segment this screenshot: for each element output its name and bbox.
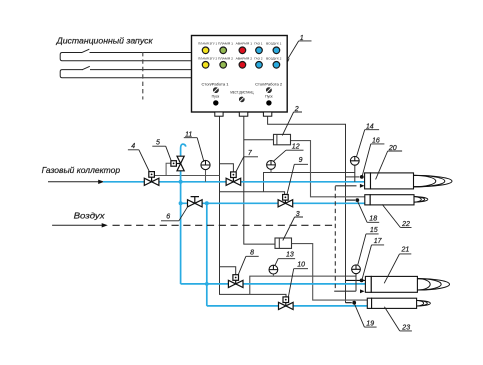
pipe junction dot A — [179, 180, 183, 184]
label 16 — [362, 138, 384, 176]
wire bus of upper valve group — [152, 175, 220, 177]
svg-text:ПЛАМЯ ЗГУ 1: ПЛАМЯ ЗГУ 1 — [198, 42, 217, 46]
label 9 — [287, 157, 308, 194]
label 5 — [152, 140, 171, 161]
air header dashed — [113, 224, 336, 226]
wire branch to valve 9 actuator — [220, 192, 285, 195]
svg-text:МЕСТ./ДИСТАНЦ.: МЕСТ./ДИСТАНЦ. — [230, 91, 254, 95]
panel terminal 3 — [263, 112, 271, 116]
label 23 — [384, 307, 412, 332]
wire from terminal 2 — [244, 116, 275, 244]
panel terminal 1 — [215, 112, 223, 116]
gas branch to pilot line — [181, 202, 365, 204]
svg-text:23: 23 — [401, 324, 410, 331]
label 20 — [376, 145, 403, 180]
wire branch to transformer 2 — [244, 139, 274, 141]
pipe from valve 9 to igniter of burner 20 — [264, 173, 355, 192]
svg-text:18: 18 — [369, 215, 377, 222]
svg-text:10: 10 — [297, 262, 305, 269]
flame rod wire of pilot 22 — [346, 199, 356, 201]
svg-text:Стоп/Работа 2: Стоп/Работа 2 — [255, 82, 282, 86]
svg-text:ГАЗ 2: ГАЗ 2 — [254, 56, 263, 60]
label 7 — [236, 150, 258, 172]
svg-text:22: 22 — [401, 221, 410, 228]
switch blade 2 — [82, 66, 90, 70]
selector switch local/remote — [239, 97, 244, 102]
selector switch 1 — [213, 88, 218, 93]
svg-text:8: 8 — [250, 249, 254, 256]
svg-text:19: 19 — [366, 320, 374, 327]
wire branch to valve 8 actuator — [220, 267, 236, 275]
label 17 — [362, 238, 384, 280]
burner 20 — [365, 173, 414, 189]
svg-text:ГАЗ 1: ГАЗ 1 — [254, 42, 263, 46]
svg-text:ВОЗДУХ 1: ВОЗДУХ 1 — [266, 42, 282, 46]
wire link valve 5 actuator — [166, 163, 171, 175]
svg-text:ВОЗДУХ 2: ВОЗДУХ 2 — [266, 56, 282, 60]
air inlet arrow — [52, 224, 103, 226]
valve 4 — [144, 172, 159, 186]
label 10 — [288, 262, 308, 297]
label 15 — [358, 227, 379, 266]
sensor 13 — [269, 265, 278, 276]
lamp yellow 2 — [202, 62, 209, 69]
svg-text:9: 9 — [299, 157, 303, 164]
panel terminal 2 — [239, 112, 248, 116]
gas main pipe — [103, 181, 365, 183]
boundary dashed line — [142, 52, 144, 100]
label 1 — [287, 35, 312, 62]
pilot burner 23 — [367, 298, 416, 308]
burner 21 flame — [418, 279, 450, 290]
lamp blue gas 2 — [256, 62, 263, 69]
wire branch to valve 7 actuator — [220, 164, 234, 173]
lamp green 2 — [220, 62, 227, 69]
svg-text:Дистанционный запуск: Дистанционный запуск — [56, 36, 154, 46]
control panel U1 — [192, 36, 288, 113]
flame rod dot 19 — [352, 301, 356, 305]
valve 9 — [278, 195, 293, 207]
pilot burner 22 — [365, 195, 414, 205]
lamp blue gas 1 — [256, 47, 263, 54]
lamp blue air 1 — [273, 47, 280, 54]
svg-text:ПЛАМЯ 2: ПЛАМЯ 2 — [218, 56, 233, 60]
lamp captions row 2 — [198, 56, 282, 60]
wire from terminal 1 (down to lower valves) — [220, 116, 287, 297]
ignition lead transformer 2 to pilot 22 — [291, 141, 365, 197]
lamp yellow 1 — [202, 47, 209, 54]
lamp green 1 — [220, 47, 227, 54]
valve 6 (air/manual) — [188, 197, 203, 207]
label 18 — [358, 201, 380, 222]
ignition lead transformer 3 to pilot 23 — [292, 244, 368, 301]
vent pipe with valve 5 — [181, 144, 186, 182]
burner 21 — [365, 276, 417, 292]
label 14 — [356, 124, 379, 158]
electrode wire into burner 21 — [346, 279, 367, 281]
wire pair 1 (remote start circuit 1) — [60, 53, 191, 61]
push button 2 — [266, 100, 271, 105]
switch blade 1 — [82, 49, 90, 53]
gas riser B to pilot 23 line — [206, 203, 208, 306]
label 2 — [282, 106, 302, 136]
pipe from valve 10 to igniter of burner 21 — [250, 276, 356, 294]
electrode dot 16 — [360, 175, 364, 179]
label 12 — [273, 144, 304, 162]
svg-text:12: 12 — [292, 144, 300, 151]
gas pipe to burner 21 — [181, 283, 366, 285]
svg-text:Стоп/Работа 1: Стоп/Работа 1 — [202, 82, 229, 86]
ignition transformer 2 — [274, 134, 291, 144]
pilot 22 flame — [414, 197, 428, 203]
gas pipe to pilot 23 — [207, 305, 367, 307]
label 21 — [384, 247, 411, 284]
svg-text:4: 4 — [131, 143, 135, 150]
svg-text:17: 17 — [374, 238, 383, 245]
label 8 — [238, 249, 259, 274]
label 22 — [382, 204, 411, 227]
svg-text:Пуск: Пуск — [265, 94, 273, 98]
air line into burner 20 — [335, 185, 356, 187]
label 11 — [184, 132, 204, 162]
electrode dot 17 — [360, 279, 364, 283]
pilot 23 flame — [417, 300, 431, 306]
valve 7 — [226, 172, 241, 186]
lamp captions row 1 — [198, 42, 282, 46]
pipe junction dot B — [205, 201, 209, 205]
sensor 14 — [350, 156, 359, 181]
air riser dashed — [334, 186, 336, 291]
label 13 — [275, 251, 295, 265]
flame rod dot 18 — [355, 198, 359, 202]
sensor 11 — [201, 160, 210, 181]
svg-text:Пуск: Пуск — [212, 94, 220, 98]
lamp blue air 2 — [273, 62, 280, 69]
ignition transformer 3 — [275, 238, 292, 248]
svg-text:ПЛАМЯ ЗГУ 2: ПЛАМЯ ЗГУ 2 — [198, 56, 217, 60]
svg-text:Газовый коллектор: Газовый коллектор — [42, 165, 121, 175]
svg-text:АВАРИЯ 2: АВАРИЯ 2 — [236, 56, 253, 60]
svg-text:15: 15 — [370, 227, 378, 234]
svg-text:АВАРИЯ 1: АВАРИЯ 1 — [236, 42, 253, 46]
lamp red 1 — [239, 47, 246, 54]
svg-text:5: 5 — [156, 140, 160, 147]
valve 5 (vent) — [171, 156, 184, 171]
wire from terminal 3 (right riser) — [268, 116, 346, 303]
svg-text:13: 13 — [286, 251, 294, 258]
electrode wire into burner 20 — [346, 176, 360, 178]
gas riser A down to burner 21 line — [180, 182, 182, 284]
sensor 12 — [267, 161, 276, 173]
gas inlet arrow — [48, 181, 100, 183]
svg-text:6: 6 — [166, 214, 170, 221]
label 19 — [355, 304, 377, 327]
push button 1 — [213, 100, 218, 105]
label 3 — [283, 211, 303, 241]
label 4 — [128, 143, 149, 172]
svg-text:Воздух: Воздух — [74, 211, 106, 221]
lamp red 2 — [239, 62, 246, 69]
label 6 — [161, 206, 188, 221]
svg-text:21: 21 — [401, 247, 410, 254]
sensor 15 — [352, 265, 361, 291]
burner 20 flame — [414, 175, 452, 186]
svg-text:ПЛАМЯ 1: ПЛАМЯ 1 — [218, 42, 233, 46]
valve 8 — [228, 275, 243, 288]
selector switch 2 — [266, 88, 271, 93]
air line into burner 21 — [334, 290, 356, 292]
flame rod wire of pilot 23 — [346, 302, 352, 304]
valve 10 — [279, 297, 294, 310]
wire pair 2 (remote start circuit 2) — [60, 70, 191, 78]
